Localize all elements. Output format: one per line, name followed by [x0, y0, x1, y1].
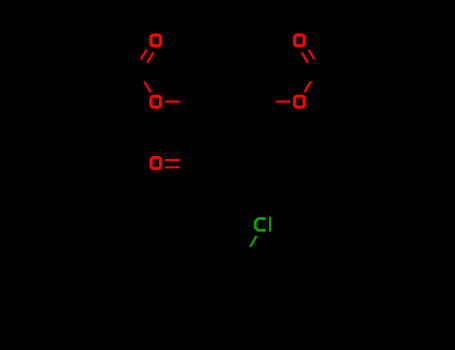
bond C=O5 double bond upper line — [165, 159, 179, 161]
bond C1=O1 double bond line 2 — [147, 52, 153, 63]
oxygen O5 (ketone O) — [151, 158, 161, 169]
chlorine Cl label: C glyph — [255, 219, 265, 231]
bond C=O5 double bond lower line — [165, 166, 179, 168]
bond O2-ring (horizontal) — [165, 100, 179, 102]
bond C2=O3 double bond line 1 — [309, 50, 315, 60]
oxygen O2 (left ester O) — [151, 96, 161, 107]
bond C1-O2 (left ester single bond) — [144, 81, 150, 92]
bond C-Cl — [250, 236, 257, 247]
chlorine Cl label: l bar — [269, 217, 271, 232]
bond C2-O4 (right ester single bond) — [304, 81, 310, 92]
bond C2=O3 double bond line 2 — [302, 52, 308, 63]
oxygen O3 (right acetate carbonyl O) — [295, 35, 305, 46]
bond C1=O1 double bond line 1 — [141, 50, 147, 60]
oxygen O4 (right ester O) — [295, 96, 305, 107]
bond O4-ring (horizontal) — [276, 100, 290, 102]
oxygen O1 (left acetate carbonyl O) — [151, 35, 161, 46]
